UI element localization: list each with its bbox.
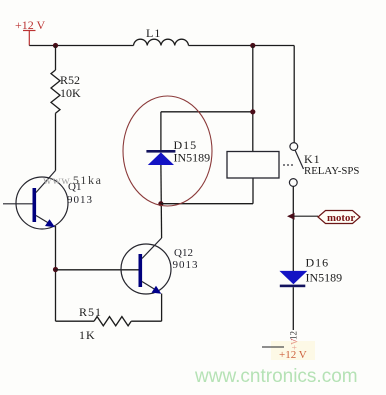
node: relay-D15 junction [250,109,255,114]
resistor R52 [51,46,81,171]
inductor L1 [134,39,189,45]
motor tap arrow [287,213,295,220]
wire Q12 base [56,269,139,271]
svg-text:R52: R52 [60,73,80,87]
transistor Q1 [16,171,93,230]
power +12V label [15,18,46,46]
wire relay bottom link [161,178,253,204]
wire to motor label [293,215,318,217]
wire bottom left [56,320,95,322]
svg-text:www.51ka: www.51ka [43,173,103,187]
svg-text:10K: 10K [60,86,81,100]
power symbol +12V rotated [262,331,315,361]
svg-text:motor: motor [327,212,355,224]
wire Q12 emitter down [161,294,163,322]
svg-text:1K: 1K [79,328,96,342]
diode D15 [146,138,210,165]
svg-text:K1: K1 [304,152,321,166]
wire Q1 base [3,203,33,205]
wire D16 to power [292,287,294,330]
wire Q1 emitter down [55,226,57,321]
node: +12V junction [53,43,58,48]
svg-text:9013: 9013 [173,259,199,271]
svg-text:Q12: Q12 [174,247,193,259]
net label motor [318,211,360,225]
svg-text:L1: L1 [146,26,161,40]
dotted link relay-switch [283,164,293,166]
resistor R51 [79,305,131,342]
annotation red ellipse [123,96,212,206]
relay K1 coil box [227,152,279,179]
wire D15 vertical [160,112,163,238]
svg-text:RELAY-SPS: RELAY-SPS [304,165,359,177]
wire right drop to switch [293,46,295,143]
switch K1 contacts [289,143,359,187]
svg-text:www.cntronics.com: www.cntronics.com [194,366,358,387]
wire top rail right [189,45,295,47]
wire top rail left [29,45,133,47]
svg-text:+12 V: +12 V [279,349,307,361]
svg-text:D16: D16 [306,256,330,270]
watermark 51ka [43,173,103,187]
svg-text:IN5189: IN5189 [306,271,343,285]
wire D15 top link [161,111,253,113]
node: Q1 emitter / Q12 base junction [53,267,58,272]
wire mid vertical to relay [252,46,254,152]
wire bottom right [131,320,161,322]
node: top-mid junction [250,43,255,48]
node: D15 bottom junction [158,201,163,206]
svg-text:9013: 9013 [67,194,93,206]
transistor Q12 [121,238,199,294]
wire switch to D16 [292,187,294,272]
svg-text:R51: R51 [79,305,102,319]
svg-text:IN5189: IN5189 [174,151,211,165]
diode D16 [279,256,342,288]
